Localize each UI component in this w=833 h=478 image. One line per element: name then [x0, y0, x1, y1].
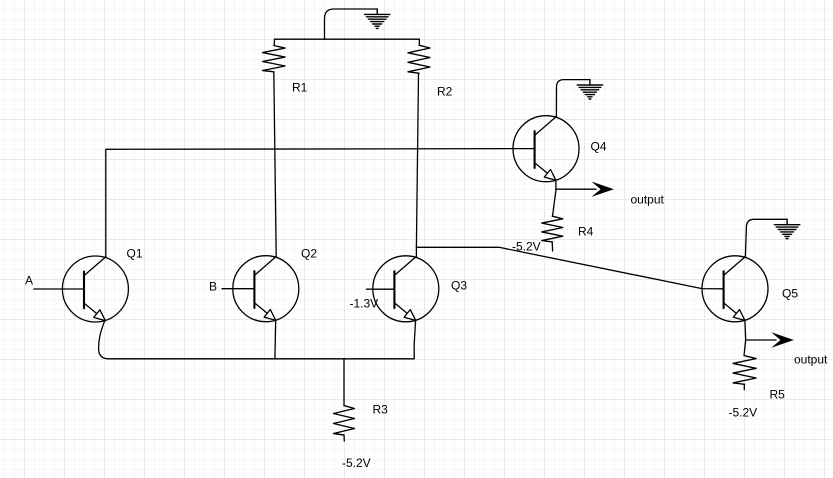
transistor Q5 [702, 256, 768, 322]
arrowhead: output of Q5 [771, 332, 794, 347]
svg-text:Q3: Q3 [451, 279, 467, 293]
wire: rail to R2 top lead [418, 39, 420, 45]
transistor Q1 [62, 256, 128, 322]
transistor Q2 [233, 256, 299, 322]
wire: input B to Q2 base [222, 288, 254, 290]
svg-text:Q2: Q2 [301, 247, 317, 261]
svg-text:R4: R4 [578, 225, 594, 239]
svg-text:-5.2V: -5.2V [342, 456, 371, 470]
wire: Q5 emitter to R5 [744, 321, 746, 356]
wire: rail to R1 top lead [273, 39, 275, 45]
svg-text:B: B [209, 280, 217, 294]
wire: R4 bottom lead [551, 242, 553, 251]
arrowhead: output of Q4 [591, 182, 614, 197]
svg-text:Q1: Q1 [127, 247, 143, 261]
wire: Q5 collector to ground GND3 [745, 219, 787, 256]
wire: Q4 emitter to R4 [553, 180, 556, 216]
resistor R1 [263, 46, 286, 72]
svg-text:R5: R5 [770, 388, 786, 402]
svg-text:R3: R3 [373, 403, 389, 417]
svg-text:output: output [631, 193, 665, 207]
resistor R3 [334, 406, 355, 435]
resistor R5 [733, 356, 756, 385]
svg-text:R2: R2 [437, 85, 453, 99]
svg-text:-5.2V: -5.2V [729, 406, 758, 420]
wire: -1.3V reference to Q3 base [366, 288, 394, 290]
wire: VCC rail between R1 and R2 [275, 38, 420, 40]
wire: Q2 emitter to emitter rail [274, 320, 277, 358]
wire: R5 bottom lead [743, 384, 745, 389]
ground GND1 [365, 9, 390, 28]
wire: Q1 collector to Q4 base [106, 149, 535, 257]
svg-text:Q4: Q4 [591, 140, 607, 154]
svg-text:A: A [25, 274, 33, 288]
wire: VCC rail to ground GND1 [325, 9, 378, 39]
svg-text:-5.2V: -5.2V [512, 240, 541, 254]
resistor R2 [408, 45, 430, 73]
wire: output line from Q5 emitter [746, 339, 776, 341]
wire: R2 to Q3 collector [416, 73, 418, 256]
transistor Q3 [373, 256, 439, 322]
transistor Q4 [513, 116, 579, 182]
wire: output line from Q4 emitter [556, 188, 596, 190]
svg-text:Q5: Q5 [782, 287, 798, 301]
svg-text:-1.3V: -1.3V [350, 297, 379, 311]
wire: emitter rail to R3 [343, 359, 345, 406]
resistor R4 [542, 216, 563, 242]
wire: Q1 emitter to common emitter rail to Q3 emitter [99, 320, 416, 359]
ground GND2 [577, 80, 602, 99]
ground GND3 [774, 219, 799, 238]
svg-text:R1: R1 [292, 81, 308, 95]
wire: Q4 collector to ground GND2 [556, 80, 590, 117]
svg-text:output: output [794, 353, 828, 367]
wire: R3 bottom lead [343, 435, 345, 441]
wire: input A to Q1 base [34, 288, 84, 290]
wire: Q3 collector to Q5 base [416, 247, 723, 288]
wire: R1 to Q2 collector [274, 72, 276, 256]
